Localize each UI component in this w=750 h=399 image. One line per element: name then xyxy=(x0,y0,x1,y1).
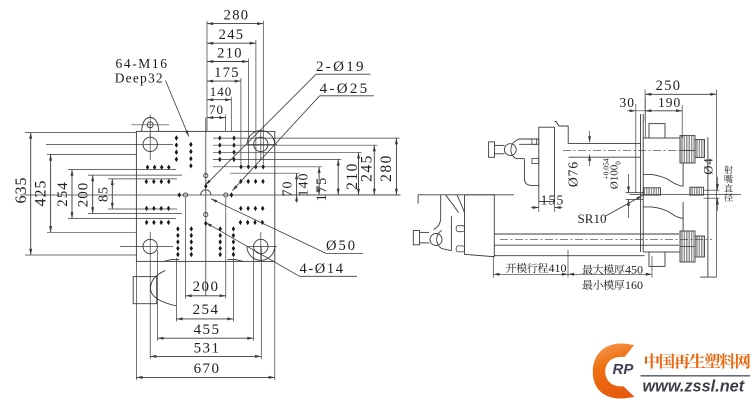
locating bore lines xyxy=(626,193,644,200)
hole Ø14 left xyxy=(183,193,187,197)
leader Ø50 xyxy=(211,199,326,254)
svg-text:2-Ø19: 2-Ø19 xyxy=(316,59,366,75)
right view axis line left part xyxy=(418,194,514,196)
dimension 200 bottom xyxy=(186,279,226,297)
dimension 200 left xyxy=(76,175,95,213)
svg-text:200: 200 xyxy=(76,182,92,208)
bracket outline lower xyxy=(418,195,451,251)
M16 hole column upper-left B xyxy=(189,142,192,169)
svg-text:245: 245 xyxy=(219,27,245,43)
base line xyxy=(494,255,644,257)
svg-text:70: 70 xyxy=(281,181,296,197)
svg-text:410: 410 xyxy=(549,261,567,275)
fixed platen top lug xyxy=(649,124,665,138)
mold block top xyxy=(555,122,569,144)
label SR10 xyxy=(578,211,607,226)
dimension 175 top xyxy=(207,65,241,83)
svg-text:254: 254 xyxy=(193,302,220,318)
dimension 30 xyxy=(620,95,646,112)
svg-text:190: 190 xyxy=(658,95,681,110)
bottom-left brace curve xyxy=(151,271,176,306)
svg-text:254: 254 xyxy=(55,181,71,207)
hole Ø14 bottom xyxy=(204,213,208,217)
nozzle tip lines xyxy=(704,190,720,198)
logo RP text xyxy=(613,361,635,378)
svg-text:RP: RP xyxy=(613,361,635,378)
clip lower-left face 1 xyxy=(456,226,464,232)
M16 hole row lower-left 2 xyxy=(145,220,170,225)
svg-text:Ø76: Ø76 xyxy=(566,161,581,187)
svg-text:531: 531 xyxy=(194,341,221,357)
clevis arms lower xyxy=(420,232,430,243)
M16 hole row left 1 xyxy=(146,165,171,170)
M16 hole column lower-left B xyxy=(190,226,193,257)
svg-text:30: 30 xyxy=(620,95,636,110)
label 射嘴直径 vertical xyxy=(724,165,733,201)
svg-text:Deep32: Deep32 xyxy=(115,71,164,86)
M16 hole row upper-right under extensions xyxy=(239,164,265,169)
hole Ø14 top xyxy=(204,174,208,178)
bottom dim extension verticals xyxy=(493,250,652,278)
sprue recess bell upper xyxy=(643,174,683,186)
M16 hole column upper-left A xyxy=(175,135,178,162)
logo Chinese 中国再生塑料网 xyxy=(645,353,750,369)
top chain extension verticals xyxy=(207,21,263,164)
mold plate line xyxy=(640,114,642,252)
svg-text:200: 200 xyxy=(193,279,220,295)
svg-text:425: 425 xyxy=(33,180,50,207)
svg-text:175: 175 xyxy=(314,177,330,202)
lifting ear top-left xyxy=(132,115,170,137)
horizontal centerline xyxy=(20,194,401,196)
leader 4-Ø25 xyxy=(232,96,319,191)
platen inner face xyxy=(682,163,684,231)
centerline bottom-left hole xyxy=(120,232,173,247)
lower tie bar nut xyxy=(680,231,705,262)
dimension 250 xyxy=(645,78,716,97)
centerline top-right hole xyxy=(247,130,277,160)
ear circle upper xyxy=(504,144,516,156)
svg-text:160: 160 xyxy=(625,278,643,292)
fixed platen back face xyxy=(707,137,709,277)
clip upper-left face 1 xyxy=(532,139,539,144)
bracket body upper xyxy=(516,139,539,185)
dimension 245 top xyxy=(207,27,256,45)
platen outline (front view) xyxy=(136,131,274,261)
svg-text:140: 140 xyxy=(297,173,312,197)
leader 2-Ø19 xyxy=(205,74,316,185)
sprue recess bell lower xyxy=(643,207,683,219)
tie-bar hole bottom-left xyxy=(143,239,157,253)
label 2-Ø19 xyxy=(316,59,370,75)
lower tie bar axis xyxy=(500,239,712,241)
dimension stroke/thickness line xyxy=(493,273,652,276)
dimension 70 right xyxy=(281,173,299,203)
dimension 140 right xyxy=(297,167,321,197)
bottom chain extension verticals xyxy=(136,198,274,380)
tie-bar hole top-right xyxy=(254,137,268,151)
toggle arm curves lower xyxy=(446,195,465,213)
upper tie bar xyxy=(569,144,641,158)
svg-text:670: 670 xyxy=(194,361,221,377)
clevis pin cap upper xyxy=(489,142,495,157)
hole Ø14 right xyxy=(224,193,228,197)
label 4-Ø14 xyxy=(300,261,358,277)
M16 hole column lower-right B xyxy=(232,226,235,257)
bottom-left tab xyxy=(133,277,157,304)
svg-text:85: 85 xyxy=(97,186,112,202)
svg-text:175: 175 xyxy=(214,65,240,81)
dimension 140 top xyxy=(207,84,232,101)
leader 4-Ø14 xyxy=(206,223,300,277)
left chain extension horizontals xyxy=(25,133,182,256)
dimension 531 bottom xyxy=(150,341,261,358)
svg-text:280: 280 xyxy=(224,8,250,24)
marker diamonds around center xyxy=(178,184,234,227)
svg-text:450: 450 xyxy=(625,263,643,277)
clip lower-left face 2 xyxy=(456,246,464,252)
dimension Ø76 xyxy=(566,131,592,187)
M16 hole row left 2 xyxy=(145,179,171,184)
label 开模行程410 xyxy=(506,261,567,275)
svg-text:155: 155 xyxy=(541,193,565,208)
leader SR10 xyxy=(605,196,643,217)
dimension 280 top xyxy=(207,8,263,26)
ear hole xyxy=(147,122,153,128)
label 最大模厚450 xyxy=(582,263,643,277)
ear circle lower xyxy=(430,234,442,246)
dimension 254 bottom xyxy=(176,302,233,320)
svg-text:245: 245 xyxy=(359,154,376,182)
dimension 280 right xyxy=(378,138,398,195)
fixed platen top edge xyxy=(643,137,680,139)
fixed platen mold face xyxy=(643,98,645,253)
svg-text:4-Ø14: 4-Ø14 xyxy=(300,261,345,277)
svg-text:www.zssl.net: www.zssl.net xyxy=(643,378,745,396)
dimension 210 right xyxy=(344,152,361,195)
nozzle tip knurled xyxy=(690,187,704,195)
upper tie bar axis xyxy=(563,149,695,151)
center hole Ø50 xyxy=(201,190,211,195)
right view nozzle axis xyxy=(630,194,741,196)
svg-text:SR10: SR10 xyxy=(578,211,607,226)
M16 hole row lower-right 2 xyxy=(239,220,264,225)
boss arc at top-right hole xyxy=(247,131,275,145)
clip upper-left face 2 xyxy=(532,158,539,163)
moving platen closed position xyxy=(539,127,555,201)
svg-text:70: 70 xyxy=(209,102,224,117)
ext verticals 250/190/30 xyxy=(636,90,717,278)
dimension 155 xyxy=(531,193,565,213)
svg-text:210: 210 xyxy=(217,46,243,62)
M16 hole row lower-right 1 xyxy=(239,206,264,211)
centerline bottom-right hole xyxy=(247,232,277,261)
dimension 455 bottom xyxy=(157,322,253,340)
label 最小模厚160 xyxy=(582,278,643,292)
dimension 175 right xyxy=(314,159,340,201)
svg-text:64-M16: 64-M16 xyxy=(116,56,169,71)
fixed platen bottom right edge xyxy=(700,276,717,278)
clevis pin cap lower xyxy=(413,231,419,245)
bottom edge wedge right xyxy=(227,259,243,261)
dimension 245 right xyxy=(359,145,376,195)
dimension 670 bottom xyxy=(136,361,274,379)
logo url www.zssl.net xyxy=(643,378,745,396)
right chain baseline xyxy=(282,194,401,196)
fixed platen bottom lug xyxy=(649,252,665,266)
M16 hole row lower-left 1 xyxy=(145,206,170,211)
tie-bar hole bottom-right xyxy=(254,239,268,253)
svg-text:Ø4: Ø4 xyxy=(702,157,716,174)
label 4-Ø25 xyxy=(320,81,374,97)
svg-text:4-Ø25: 4-Ø25 xyxy=(320,81,370,97)
dimension 210 top xyxy=(207,46,248,64)
tie-bar hole top-left xyxy=(143,137,157,151)
logo C swoosh xyxy=(593,343,635,398)
svg-text:250: 250 xyxy=(656,78,682,94)
upper tie bar nut xyxy=(680,136,705,163)
fixed platen bottom edge xyxy=(643,251,680,253)
dimension Ø4 nozzle diameter xyxy=(702,157,719,211)
svg-text:455: 455 xyxy=(194,322,221,338)
lower tie bar xyxy=(494,234,679,245)
dimension 70 top xyxy=(207,102,226,119)
label 64-M16 Deep32 xyxy=(115,56,169,86)
M16 hole grid upper-right xyxy=(218,135,236,162)
dimension 254 left xyxy=(55,170,74,219)
dimension 85 left xyxy=(97,179,114,209)
svg-text:Ø50: Ø50 xyxy=(326,238,357,254)
logo divider line xyxy=(641,375,750,377)
ear arc upper xyxy=(511,141,516,159)
dimension 635 left xyxy=(13,133,32,256)
ear arc lower xyxy=(437,230,442,248)
nozzle seat knurled xyxy=(644,188,661,195)
boss arc at bottom-right hole xyxy=(247,247,275,261)
bottom edge wedge left xyxy=(164,259,179,261)
M16 hole column lower-left A xyxy=(176,226,179,257)
vertical centerline xyxy=(205,118,207,296)
svg-text:0: 0 xyxy=(615,161,623,165)
label Ø50 xyxy=(326,238,363,254)
svg-text:635: 635 xyxy=(13,177,30,204)
svg-text:+0.054: +0.054 xyxy=(602,158,611,179)
svg-text:280: 280 xyxy=(378,154,395,182)
clevis arms upper xyxy=(495,145,505,153)
svg-text:140: 140 xyxy=(210,84,233,99)
extension row lines to right chain xyxy=(213,138,400,173)
M16 hole row right 1 xyxy=(239,179,265,184)
moving platen open position xyxy=(465,195,495,257)
M16 hole column lower-right A xyxy=(219,226,222,257)
centerline top-left hole xyxy=(46,133,173,160)
leader 64-M16 xyxy=(166,81,189,137)
dimension 190 xyxy=(645,95,682,112)
dimension Ø100 with tolerance xyxy=(602,158,631,218)
dimension 425 left xyxy=(33,154,53,232)
